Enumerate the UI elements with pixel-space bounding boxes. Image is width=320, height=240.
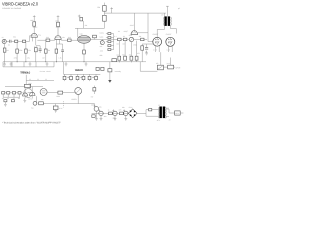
heater cap C10 [83,74,85,76]
power tube V4 [153,37,162,46]
wires PT secondary right [166,109,174,117]
cathode bypass C2 [39,48,42,50]
svg-text:schematic rev. twohead: schematic rev. twohead [2,7,22,10]
resistor R15 [141,38,144,41]
heater line [64,73,101,75]
ground 2 [46,62,49,66]
svg-text:mix: mix [100,45,103,48]
resistor R21 [168,65,174,69]
svg-text:TREMOLO: TREMOLO [20,72,30,75]
pins V5 [167,46,169,52]
ground bus [3,61,146,63]
triode V6B [29,92,35,95]
resistor R33 [92,115,95,118]
main DC line [92,112,129,114]
drop R17 [124,41,126,57]
bus junction dots [17,60,132,63]
resistor R35 [120,112,124,115]
power transformer T3 [159,107,162,119]
ground 4 arrow [108,80,111,83]
grid stopper R3 [23,40,26,42]
resistor R14 [123,38,127,41]
node B+ B [78,15,81,17]
cathode network V2A R9 [55,44,57,49]
ground 7 [95,111,98,120]
svg-text:68k: 68k [100,54,103,57]
cathode cap C4 [61,49,64,51]
wire C1 to R2 [11,40,15,42]
small resistor R31 [4,100,7,102]
envelope V6 [24,89,33,98]
decoupling cap C20 [80,18,83,21]
ground 9 [114,116,117,121]
triode V2A [55,36,61,40]
dropper resistor R12 [103,15,107,21]
input jack J1 [2,39,6,43]
snubber C19 [93,35,97,38]
svg-text:OT: OT [161,13,163,16]
triode V3 driver [131,31,138,35]
wire V7 out [47,91,58,93]
ground 5 [54,110,57,113]
svg-text:VIBRO-CABEZA v2.0: VIBRO-CABEZA v2.0 [2,2,38,7]
resistor R34 [109,112,113,115]
heater plus marks [67,77,94,79]
wire bridge to PT [137,110,159,117]
chain ground line [3,94,20,97]
wire OT secondary bottom [171,26,177,34]
wire OT primary bottom to plate [157,26,164,38]
coupling C5 [61,39,67,41]
intensity control R30 [93,88,96,91]
ground 1 [10,62,13,66]
bus box R22 [112,59,117,62]
drop box R19b [135,56,138,60]
junction dashes [63,101,65,107]
wire cathodes [142,43,153,45]
plate resistor R8 [57,22,60,26]
divider drop R7 [25,43,27,50]
stub above R26 [29,84,31,89]
divider drop R6 [16,43,18,50]
interstage transformer T1 [78,36,91,44]
wire V6 [28,92,31,94]
footswitch jack J2 [33,101,37,105]
volume pot VR1 [45,41,47,49]
ground 2c [65,62,68,66]
ground cathode [145,51,148,55]
cathode drops V6 [24,96,26,98]
wire T1 out [90,38,117,40]
output transformer T2 [164,16,166,26]
wire R2 to grid V1A [18,36,31,42]
resistor R13 [118,38,122,41]
wires control row [121,38,123,40]
svg-text:p1: p1 [178,7,180,10]
cathode cap C6 [145,47,148,49]
resistor R25 [108,69,112,72]
plate resistor R4 [33,22,36,26]
resistor R23 [96,67,99,70]
wire drop [109,62,111,69]
svg-text:10k: 10k [97,6,100,9]
mid pot VR5 [101,39,103,40]
B+ rail [104,12,165,14]
wire dropper chain [103,3,105,6]
aux line [26,79,54,81]
node B+ C [110,8,113,10]
svg-text:osc: osc [41,99,44,101]
cathode V2B drop [83,43,85,50]
tone pot VR2 [129,37,133,41]
wire driver to grids [138,33,153,42]
filter cap C17 [113,111,117,115]
svg-text:SPKR: SPKR [175,66,181,69]
cathode resistor R20 [141,46,144,50]
small resistor R32 [11,100,14,102]
svg-text:6V6GT: 6V6GT [166,33,173,36]
wire R29 to speed pot [63,92,75,94]
heater cap C12 [95,74,97,76]
capacitor C14 [18,92,21,94]
capacitor C13 [12,92,15,94]
drop R16 [118,41,120,57]
heater cap C11 [89,74,91,76]
speed pot VR4 [75,88,82,95]
svg-text:.022: .022 [100,50,103,53]
wire screen feed [147,13,149,33]
bridge rectifier D1-D4 [128,109,137,118]
ground 8 [100,116,103,121]
capacitor C1 [9,40,11,43]
triode V6A [23,93,28,96]
feedback resistor R26 [5,86,43,88]
ground 10 [124,116,127,121]
wire V7 cathode [36,96,38,103]
resistor R2 [15,40,18,42]
wires speaker row [163,66,167,68]
ground 3 [85,62,88,66]
wire AC out [180,112,183,114]
output jack pot VR3 [157,65,163,70]
ground 0 [3,62,6,66]
resistor R28 [7,92,10,94]
wire footswitch [43,104,94,107]
svg-text:intensity: intensity [115,70,121,73]
footswitch box [39,102,44,105]
NFB wire [140,62,157,71]
resistor R24 [101,67,104,70]
svg-text:treble: treble [100,31,104,34]
svg-text:6V6GT: 6V6GT [153,33,160,36]
oscillator tube V7 [40,89,47,96]
heater cap C7 [64,74,66,76]
wire B+ branch [75,27,104,29]
power tube V5 [166,37,175,46]
pins V4 [154,46,156,52]
heater cap C9 [77,74,79,76]
wires tremolo chain [5,92,23,94]
heater cap C8 [70,74,72,76]
svg-text:VIBRATO: VIBRATO [75,69,83,72]
svg-text:* Technical schematics taken f: * Technical schematics taken from "SILVE… [2,121,61,124]
grid leak R1 [4,43,6,48]
ground 2b [29,62,32,66]
resistor R27 [2,92,5,94]
dropper resistor R11 [103,6,107,12]
ground 6 [4,102,7,107]
filter cap C16 [99,111,103,115]
bus lower line [3,66,54,68]
ground 6b [23,98,26,102]
fuse F1 [149,109,152,111]
svg-text:bass: bass [100,36,104,39]
wire OT primary top [163,13,165,17]
filter cap C18 [124,111,128,115]
wire input to C1 [6,40,9,42]
cathode resistor R5 [35,48,38,52]
filter cap C15 [94,107,99,112]
AC inlet box [175,111,181,115]
coupling C3 [37,39,46,41]
resistor R29 [58,91,63,94]
node B+ A [33,16,36,18]
svg-text:foot sw. circuit: foot sw. circuit [40,70,51,73]
heater ticks [65,80,97,81]
trim boxes [108,33,111,35]
triode V1A [31,33,37,37]
wire OT feed up [166,6,168,16]
drop R19 [136,41,138,62]
lamp box [53,106,58,110]
drop R18 [130,42,132,57]
